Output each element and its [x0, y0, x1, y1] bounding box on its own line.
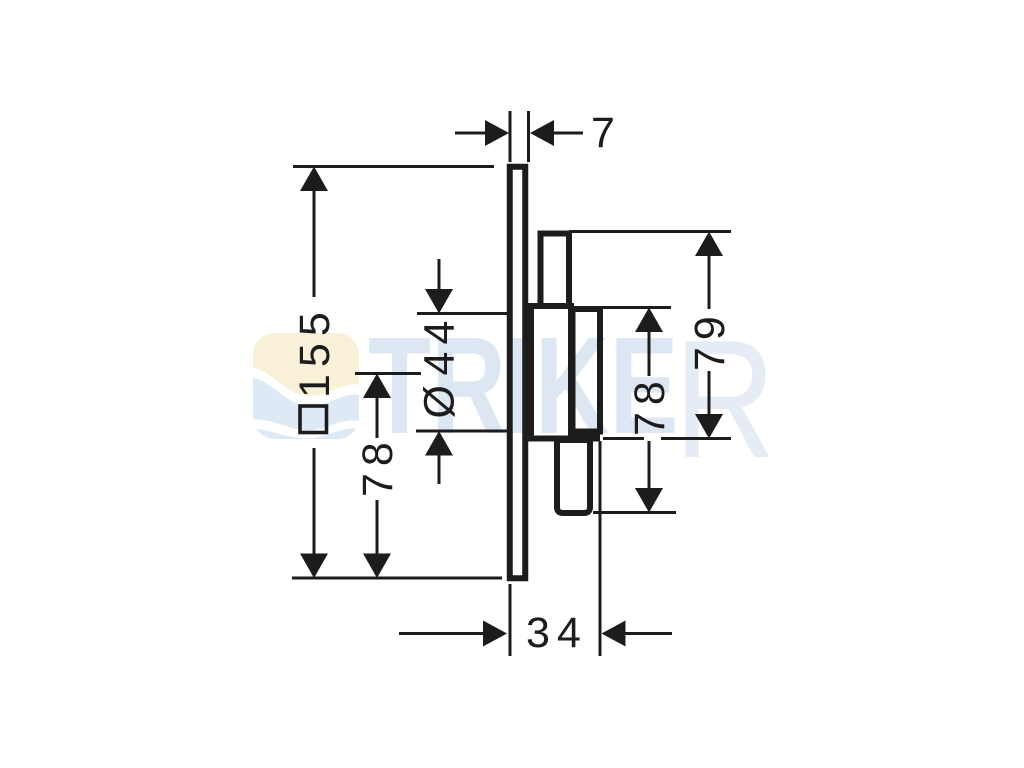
dim 79 line lower segment: [708, 371, 711, 417]
dim 34 left tail: [399, 632, 485, 635]
dim o44 top extension line: [417, 312, 507, 315]
arrow dim78R bottom: [635, 488, 663, 513]
svg-text:155: 155: [291, 305, 339, 398]
arrow dim79 bottom: [695, 414, 723, 439]
arrow dim o44 top (points down): [425, 289, 453, 314]
dim 78 right line upper segment: [648, 330, 651, 376]
dim 78 right bottom extension line: [593, 511, 676, 514]
dim 79 line upper segment: [708, 254, 711, 309]
svg-text:7: 7: [591, 109, 615, 157]
arrow dim7 right: [530, 120, 554, 146]
dim 79 bottom extension line: [603, 437, 644, 440]
dim 7 right tail: [552, 132, 583, 135]
watermark word TRIKE: [368, 309, 678, 463]
arrow dim7 left: [485, 120, 509, 146]
valve body block A: [531, 306, 571, 439]
dim o44 line below: [438, 452, 441, 484]
ext line above plate left face: [509, 111, 512, 162]
dim 78 right line lower segment: [648, 441, 651, 491]
svg-text:78: 78: [626, 374, 674, 436]
dim o44 line above: [438, 259, 441, 292]
dim 79 bottom extension line right part: [661, 437, 731, 440]
arrow dim34 right: [602, 621, 626, 647]
valve bottom port block: [557, 440, 590, 513]
valve body bottom edge extension: [571, 434, 600, 442]
arrow dim155 top: [300, 167, 328, 192]
dim 78 left center tick: [355, 372, 421, 375]
dim 155 line upper segment: [313, 190, 316, 297]
valve stop ring block B: [573, 309, 601, 432]
dim 34 right tail: [624, 632, 672, 635]
dim 155/78 bottom extension line: [292, 577, 502, 580]
label 155 square symbol: [300, 406, 327, 433]
arrow dim o44 bottom (points up): [425, 431, 453, 456]
svg-text:Ø: Ø: [416, 385, 464, 418]
arrow dim155 bottom: [300, 554, 328, 579]
arrow dim34 left: [483, 621, 507, 647]
watermark logo tile: [248, 330, 364, 444]
dim 78 left line upper segment: [376, 396, 379, 438]
dim 155 top extension line: [293, 165, 494, 168]
dim o44 bottom extension line: [416, 430, 508, 433]
svg-text:4: 4: [416, 352, 464, 376]
arrow dim78L top: [363, 374, 391, 399]
arrow dim78R top: [635, 308, 663, 333]
svg-text:34: 34: [526, 609, 588, 657]
dim 155 line lower segment: [313, 448, 316, 556]
valve top port block: [541, 234, 570, 307]
escutcheon plate (155x155, 7 thick): [510, 167, 526, 579]
svg-text:78: 78: [354, 435, 402, 497]
dim 79 top extension line: [569, 230, 731, 233]
arrow dim79 top: [695, 232, 723, 257]
svg-text:4: 4: [416, 321, 464, 345]
arrow dim78L bottom: [363, 554, 391, 579]
dim 7 left tail: [455, 132, 487, 135]
svg-text:79: 79: [686, 309, 734, 371]
watermark big R: [674, 305, 776, 492]
dim 34 right extension line: [599, 441, 602, 656]
dim 78 left line lower segment: [376, 500, 379, 556]
ext line above plate right face: [527, 111, 530, 162]
dim 34 left extension line below plate: [509, 584, 512, 656]
dim 78 right top extension line: [603, 306, 671, 309]
